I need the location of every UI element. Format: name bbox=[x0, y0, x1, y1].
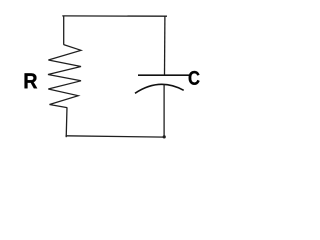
wire top bbox=[62, 15, 167, 17]
wire bottom bbox=[66, 136, 166, 137]
label R bbox=[25, 73, 37, 88]
label C bbox=[189, 71, 200, 85]
wire left-top lead bbox=[63, 16, 65, 45]
wire right-bottom lead bbox=[163, 84, 165, 137]
wire right-top lead bbox=[164, 16, 166, 75]
capacitor C top plate bbox=[138, 74, 189, 76]
capacitor C bottom curved plate bbox=[135, 84, 184, 93]
node bottom-right junction bbox=[163, 135, 166, 138]
wire left-bottom lead bbox=[65, 107, 68, 137]
resistor R bbox=[48, 45, 81, 108]
